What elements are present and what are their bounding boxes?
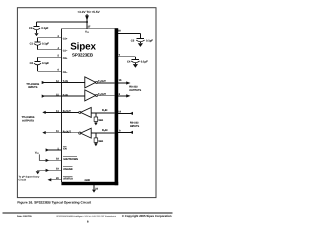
driver U1B T2 <box>61 90 114 101</box>
svg-text:V₀₀: V₀₀ <box>85 31 89 34</box>
svg-text:STATUS: STATUS <box>63 178 73 181</box>
wire VCC to SHUTDOWN <box>39 154 46 160</box>
svg-text:0.1µF: 0.1µF <box>42 62 49 65</box>
svg-text:OUTPUTS: OUTPUTS <box>22 119 34 122</box>
ground pin 16 <box>92 185 99 192</box>
svg-text:C3: C3 <box>29 27 33 30</box>
svg-text:5kΩ: 5kΩ <box>98 119 103 122</box>
svg-text:Date: 10/27/05: Date: 10/27/05 <box>17 215 32 218</box>
svg-text:R₂IN: R₂IN <box>102 129 108 132</box>
svg-text:© Copyright 2005 Sipex Corpora: © Copyright 2005 Sipex Corporation <box>122 214 172 218</box>
svg-text:C5: C5 <box>131 39 135 42</box>
svg-text:C1−: C1− <box>63 49 68 52</box>
resistor 5k R1 pulldown <box>94 113 103 126</box>
svg-text:R₁IN: R₁IN <box>102 109 108 112</box>
svg-text:C4: C4 <box>127 60 131 63</box>
svg-text:0.1µF: 0.1µF <box>141 60 148 63</box>
capacitor C2 <box>30 57 62 71</box>
wire T2OUT output <box>118 93 130 98</box>
wire ONLINE input with ground <box>36 169 62 174</box>
arrow down on VCC wire <box>85 15 89 20</box>
svg-text:GND: GND <box>85 179 91 182</box>
svg-text:T₂OUT: T₂OUT <box>98 93 106 96</box>
svg-text:Figure 16. SP3223EB Typical Op: Figure 16. SP3223EB Typical Operating Ci… <box>17 201 92 205</box>
wire STATUS output <box>48 178 62 181</box>
wire T1IN input <box>42 81 62 84</box>
svg-text:RS-232: RS-232 <box>129 86 138 89</box>
wire R1OUT output <box>42 111 61 114</box>
svg-text:Circuit: Circuit <box>19 179 27 182</box>
svg-text:SP3223EB/3243EB Intelligent +3: SP3223EB/3243EB Intelligent +3.0V to +5.… <box>56 215 116 218</box>
capacitor C1 <box>30 38 62 50</box>
svg-text:INPUTS: INPUTS <box>28 86 38 89</box>
receiver U1C R1 <box>61 108 114 118</box>
svg-text:SP3223EB: SP3223EB <box>72 53 93 58</box>
svg-text:ONLINE: ONLINE <box>63 168 73 171</box>
footer rule <box>3 212 173 214</box>
capacitor C3 <box>29 22 49 36</box>
wire R2IN input <box>118 130 133 134</box>
svg-text:OUTPUTS: OUTPUTS <box>129 89 141 92</box>
svg-text:0.1µF: 0.1µF <box>146 39 153 42</box>
capacitor C5 <box>118 29 153 47</box>
svg-text:0.1µF: 0.1µF <box>42 42 49 45</box>
svg-text:V₀₀: V₀₀ <box>35 152 39 155</box>
wire R2OUT output <box>42 131 61 134</box>
junction dot VCC rail <box>86 21 88 23</box>
figure frame <box>17 8 156 198</box>
wire VCC vertical <box>86 14 88 29</box>
svg-text:T₁OUT: T₁OUT <box>98 80 106 83</box>
wire T2IN input <box>42 95 62 98</box>
svg-text:Sipex: Sipex <box>70 42 96 53</box>
wire EN input <box>46 148 62 151</box>
svg-text:EN: EN <box>63 148 67 151</box>
svg-text:RS-232: RS-232 <box>130 121 139 124</box>
svg-text:+3.0V TO +5.5V: +3.0V TO +5.5V <box>77 10 100 14</box>
driver U1A T1 <box>61 77 114 88</box>
svg-text:SHUTDOWN: SHUTDOWN <box>63 158 78 161</box>
capacitor C4 on V- pin 7 <box>118 54 148 68</box>
svg-text:T₂IN: T₂IN <box>63 94 68 97</box>
svg-text:C2: C2 <box>30 62 34 65</box>
svg-text:C1+: C1+ <box>63 37 68 40</box>
svg-text:INPUTS: INPUTS <box>130 125 140 128</box>
wire SHUTDOWN input <box>46 159 62 162</box>
wire VCC rail to C3 <box>37 21 88 23</box>
wire R1IN input <box>118 110 133 115</box>
svg-text:0.1µF: 0.1µF <box>41 27 48 30</box>
svg-text:5kΩ: 5kΩ <box>98 140 103 143</box>
resistor 5k R2 pulldown <box>94 133 103 146</box>
svg-text:C2−: C2− <box>63 71 68 74</box>
wire T1OUT output <box>118 79 130 84</box>
svg-text:C2+: C2+ <box>63 57 68 60</box>
receiver U1D R2 <box>61 128 114 138</box>
svg-text:C1: C1 <box>30 42 34 45</box>
IC U1 SP3223EB body <box>61 28 118 185</box>
